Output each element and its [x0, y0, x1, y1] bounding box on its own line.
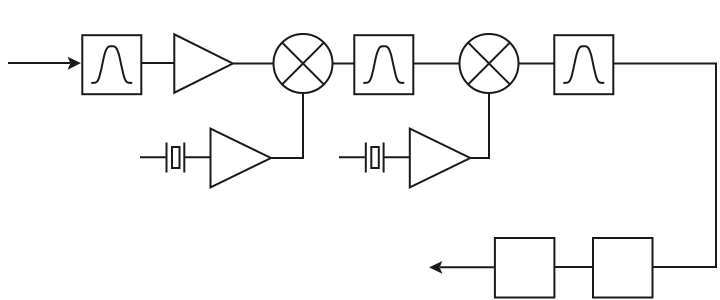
- mixer M2 X diagonal 2: [468, 43, 510, 85]
- mixer M2 circle: [460, 34, 519, 93]
- amplifier A1: [174, 34, 233, 92]
- wire input lead: [8, 62, 70, 64]
- crystal Y2 body: [371, 147, 379, 168]
- wire A2 to M1 LO port: [271, 94, 303, 158]
- wire crystal Y1 left lead: [140, 156, 166, 158]
- wire Y1 to A2: [184, 156, 211, 158]
- filter F3 response curve: [563, 46, 604, 83]
- crystal Y1 right plate: [183, 143, 185, 173]
- wire A3 to M2 LO port: [470, 94, 489, 158]
- wire output lead: [440, 266, 495, 268]
- crystal Y1 left plate: [166, 143, 168, 173]
- bandpass filter F2 box: [354, 35, 413, 94]
- mixer M1 X diagonal 2: [282, 43, 324, 85]
- filter F1 response curve: [91, 46, 132, 83]
- bandpass filter F1 box: [82, 35, 141, 94]
- mixer M2 X diagonal 1: [468, 43, 510, 85]
- bandpass filter F3 box: [554, 35, 613, 94]
- wire A1 to M1: [233, 63, 274, 65]
- wire Y2 to A3: [384, 156, 410, 158]
- oscillator amp A2: [211, 129, 272, 188]
- wire M2 to F3: [519, 63, 555, 65]
- wire F3 right then down to B2: [613, 64, 716, 268]
- wire F2 to M2: [414, 63, 460, 65]
- arrowhead output: [429, 261, 442, 274]
- crystal Y1 body: [172, 147, 180, 168]
- filter F2 response curve: [363, 46, 404, 83]
- block B2 box: [593, 238, 653, 298]
- wire F1 to A1: [142, 62, 174, 64]
- mixer M1 circle: [274, 34, 333, 93]
- arrowhead input: [68, 57, 81, 70]
- mixer M1 X diagonal 1: [282, 43, 324, 85]
- crystal Y2 right plate: [383, 143, 385, 173]
- wire B2 to B1: [555, 266, 594, 268]
- crystal Y2 left plate: [365, 143, 367, 173]
- oscillator amp A3: [410, 129, 471, 188]
- wire crystal Y2 left lead: [339, 156, 365, 158]
- block B1 box: [495, 238, 555, 298]
- wire M1 to F2: [333, 63, 355, 65]
